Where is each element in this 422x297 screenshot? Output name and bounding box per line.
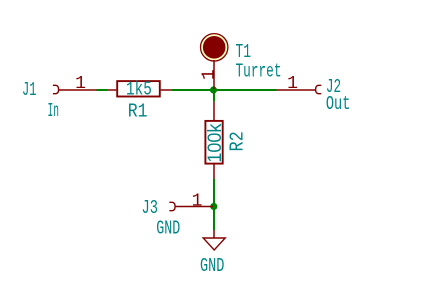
J3 pin 1 [175,206,213,208]
svg-text:R1: R1 [128,100,148,122]
wire [213,179,215,205]
svg-text:GND: GND [156,218,180,240]
svg-text:1: 1 [192,192,203,212]
svg-text:1k5: 1k5 [126,79,152,101]
svg-text:J1: J1 [22,79,37,101]
connector J1 symbol arc [53,85,59,93]
wire [213,90,215,102]
svg-text:R2: R2 [226,131,248,151]
connector J2 symbol arc [316,85,322,93]
resistor R1 [108,81,172,96]
svg-text:Turret: Turret [236,61,282,83]
power symbol GND [203,230,225,250]
J1 pin 1 [59,89,97,91]
svg-text:GND: GND [200,255,224,277]
svg-text:100k: 100k [205,123,226,162]
svg-text:In: In [48,100,60,122]
wire [97,89,108,91]
wire [171,89,276,91]
connector J2 pin 1 [277,89,316,91]
svg-text:Out: Out [326,93,351,115]
resistor R2 [205,102,222,179]
wire [213,208,215,230]
junction [210,203,217,210]
junction [210,86,217,93]
svg-text:1: 1 [200,69,220,80]
svg-text:1: 1 [287,74,298,94]
svg-text:J3: J3 [142,197,159,219]
svg-text:1: 1 [75,74,86,94]
connector J3 symbol arc [169,202,175,210]
turret T1 [201,34,228,89]
